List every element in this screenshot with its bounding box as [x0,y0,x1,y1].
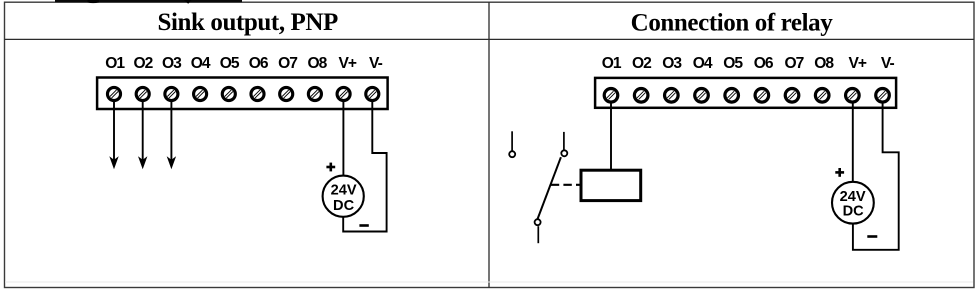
svg-text:O5: O5 [220,55,240,72]
svg-text:O8: O8 [307,55,327,72]
svg-text:Connection of relay: Connection of relay [631,9,834,36]
relay contact fixed pole A [509,131,515,157]
svg-text:V-: V- [881,55,895,72]
terminal block TB1 (left) body [97,78,388,110]
pin labels O1-O8 V+ V- (right terminal block) [602,55,895,72]
wire O3 (left) [170,100,172,161]
wire V+ to battery BT1 [342,100,344,176]
svg-text:O5: O5 [723,55,743,72]
pin labels O1-O8 V+ V- (left terminal block) [105,55,382,72]
table column divider [488,2,490,287]
svg-text:O1: O1 [602,55,622,72]
wire battery BT1 negative to V- [343,100,386,232]
faint row line [5,281,973,283]
cropped text remnant above table [55,0,242,4]
plus label (BT2) [835,168,844,177]
svg-text:V+: V+ [849,55,867,72]
svg-text:O4: O4 [191,55,211,72]
svg-text:O3: O3 [662,55,682,72]
minus label (BT1) [359,224,368,227]
svg-text:O1: O1 [105,55,125,72]
battery BT2 24V DC [832,182,874,224]
wire O1 (left) [113,100,115,161]
svg-text:O4: O4 [693,55,713,72]
wire V+ to battery BT2 [852,101,854,182]
current arrow 1 [109,156,118,169]
battery BT1 24V DC [323,176,364,217]
terminal block TB2 (right) body [595,78,896,108]
wire O1 (right) to relay coil [610,101,612,170]
svg-text:O6: O6 [249,55,269,72]
relay moving contact blade [538,157,561,219]
current arrow 3 [167,156,176,169]
terminal block TB1 screw terminals [107,87,378,100]
svg-text:O7: O7 [784,55,803,72]
relay contact common terminal [535,219,541,243]
current arrow 2 [138,156,147,169]
wire O2 (left) [142,100,144,161]
caption: Sink output, PNP [157,9,338,36]
mechanical link (dashed) to relay coil [551,184,582,186]
svg-text:O2: O2 [133,55,153,72]
svg-text:DC: DC [843,204,865,220]
svg-text:O2: O2 [632,55,652,72]
plus label (BT1) [326,163,335,172]
svg-text:O8: O8 [814,55,834,72]
table header separator [5,38,975,40]
svg-text:O3: O3 [162,55,182,72]
svg-text:Sink output, PNP: Sink output, PNP [157,9,338,36]
minus label (BT2) [867,235,877,238]
caption: Connection of relay [631,9,834,36]
svg-text:24V: 24V [331,182,357,198]
relay contact fixed pole B [561,132,567,156]
svg-text:V-: V- [369,55,383,72]
terminal block TB2 screw terminals [604,89,889,103]
svg-text:O6: O6 [754,55,774,72]
svg-text:V+: V+ [339,55,357,72]
svg-text:O7: O7 [278,55,297,72]
wire battery BT2 negative to V- [853,101,899,250]
svg-text:DC: DC [333,198,355,214]
relay coil K1 [581,170,641,200]
